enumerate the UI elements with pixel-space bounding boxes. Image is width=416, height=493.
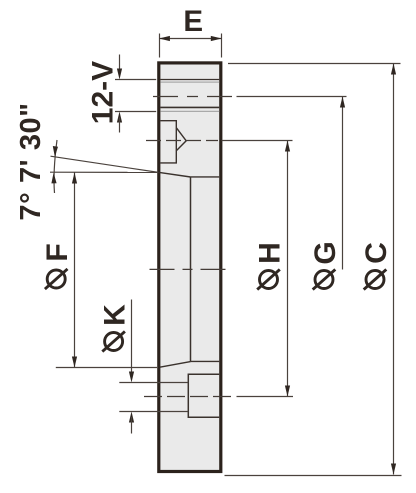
- dimension H arrow bottom: [285, 386, 290, 397]
- dimension G line: [342, 97, 344, 270]
- label K phi circle: [105, 333, 123, 351]
- svg-text:12-V: 12-V: [87, 61, 120, 124]
- dimension F arrow bottom: [72, 357, 77, 368]
- dimension E line: [160, 38, 222, 40]
- dimension C ext top: [228, 63, 401, 65]
- dimension E arrow left: [159, 36, 170, 41]
- top hole extension line: [222, 140, 293, 142]
- dimension 12-V arrow lower: [117, 112, 122, 123]
- angle dimension arc: [54, 140, 57, 193]
- dimension C ext bottom: [225, 475, 402, 477]
- dimension G arrow: [340, 97, 345, 108]
- small hole bottom line + K ext: [119, 411, 188, 413]
- dimension K line lower: [131, 417, 133, 434]
- bottom hole centerline: [144, 396, 234, 398]
- svg-text:7° 7' 30": 7° 7' 30": [15, 102, 47, 220]
- dimension C line: [393, 64, 395, 475]
- label H phi circle: [260, 271, 278, 289]
- label K phi slash: [102, 331, 125, 351]
- lower step line: [191, 360, 220, 362]
- bottom hole extension line: [237, 396, 294, 398]
- dimension G ext: [237, 96, 347, 98]
- countersink cone: [176, 128, 186, 151]
- flange body outline: [159, 63, 221, 472]
- dimension C arrow top: [391, 64, 396, 75]
- label C phi circle: [366, 271, 384, 289]
- dimension F ext bottom: [56, 367, 157, 369]
- label H phi slash: [257, 269, 280, 289]
- svg-text:E: E: [183, 5, 203, 38]
- dimension C arrow bottom: [391, 464, 396, 475]
- rim line light: [160, 81, 219, 83]
- angle lower wedge line: [50, 171, 159, 173]
- label C phi slash: [364, 269, 387, 289]
- svg-text:K: K: [99, 304, 132, 326]
- label F phi circle: [47, 270, 65, 288]
- axis centerline: [150, 268, 227, 270]
- dimension H line: [287, 141, 289, 397]
- dimension H arrow top: [285, 141, 290, 152]
- dimension 12-V ext upper: [115, 79, 156, 81]
- dimension K line upper: [131, 300, 133, 377]
- dimension 12-V ext lower: [115, 111, 156, 113]
- taper bore lower line: [160, 362, 191, 368]
- dimension F line: [74, 173, 76, 368]
- rim line top: [160, 79, 219, 81]
- svg-text:F: F: [41, 243, 74, 261]
- angle upper wedge line: [51, 156, 159, 172]
- dimension E extension left: [159, 34, 161, 58]
- taper bore upper line: [159, 172, 190, 177]
- label G phi slash: [313, 269, 336, 289]
- dimension F arrow top: [72, 173, 77, 184]
- label G phi circle: [315, 271, 333, 289]
- thread band bottom dark: [160, 106, 219, 108]
- svg-text:C: C: [360, 242, 393, 264]
- top hole centerline: [146, 140, 218, 142]
- thread band centerline dashed: [153, 96, 233, 98]
- dimension E extension right: [221, 34, 223, 58]
- small hole top line + K ext: [119, 382, 188, 384]
- angle arrow upper: [53, 146, 58, 157]
- bore end face: [190, 177, 192, 362]
- dimension 12-V line lower: [119, 118, 121, 133]
- dimension E arrow right: [211, 36, 222, 41]
- thread band bottom light: [160, 110, 219, 112]
- dimension 12-V arrow upper: [117, 69, 122, 80]
- svg-text:G: G: [309, 241, 342, 264]
- angle arrow lower: [51, 173, 56, 184]
- dimension K arrow upper: [129, 372, 134, 383]
- label F phi slash: [45, 269, 68, 289]
- upper step line: [191, 176, 220, 178]
- counterbore top hole: [160, 121, 176, 163]
- bottom counterbore: [188, 374, 219, 417]
- dimension 12-V line upper: [119, 55, 121, 74]
- svg-text:H: H: [254, 242, 287, 264]
- dimension K arrow lower: [129, 412, 134, 423]
